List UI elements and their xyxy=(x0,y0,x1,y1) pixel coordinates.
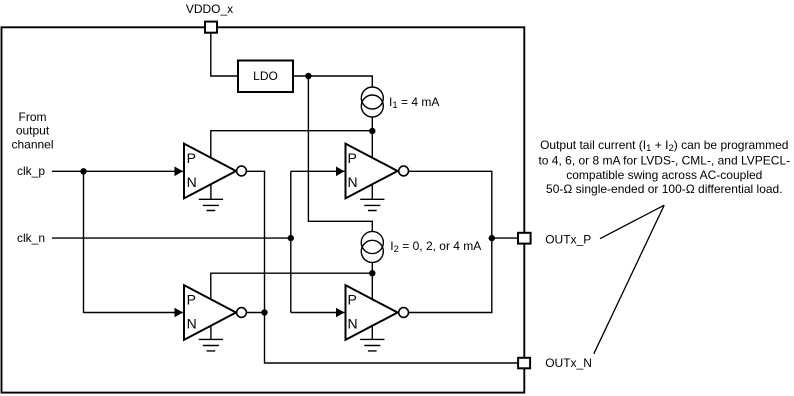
svg-text:clk_p: clk_p xyxy=(17,164,45,178)
svg-text:P: P xyxy=(348,291,357,307)
svg-text:From: From xyxy=(19,110,47,124)
svg-text:I1 = 4 mA: I1 = 4 mA xyxy=(389,95,439,111)
svg-text:P: P xyxy=(187,150,196,166)
svg-text:N: N xyxy=(348,315,358,331)
svg-text:OUTx_P: OUTx_P xyxy=(545,232,591,246)
svg-text:N: N xyxy=(187,174,197,190)
svg-text:OUTx_N: OUTx_N xyxy=(545,356,592,370)
svg-text:P: P xyxy=(348,150,357,166)
svg-text:compatible swing across AC-cou: compatible swing across AC-coupled xyxy=(566,168,762,182)
svg-text:VDDO_x: VDDO_x xyxy=(186,2,233,16)
svg-text:P: P xyxy=(187,291,196,307)
svg-text:channel: channel xyxy=(11,137,53,151)
svg-text:LDO: LDO xyxy=(253,69,278,83)
svg-text:I2 = 0, 2, or 4 mA: I2 = 0, 2, or 4 mA xyxy=(390,239,481,255)
svg-text:N: N xyxy=(348,174,358,190)
svg-text:to 4, 6, or 8 mA for LVDS-, CM: to 4, 6, or 8 mA for LVDS-, CML-, and LV… xyxy=(538,154,790,168)
svg-text:clk_n: clk_n xyxy=(17,231,45,245)
svg-text:Output tail current (I1 + I2): Output tail current (I1 + I2) can be pro… xyxy=(540,138,788,154)
svg-text:N: N xyxy=(187,315,197,331)
svg-text:50-Ω single-ended or 100-Ω dif: 50-Ω single-ended or 100-Ω differential … xyxy=(546,182,783,196)
svg-text:output: output xyxy=(16,124,50,138)
